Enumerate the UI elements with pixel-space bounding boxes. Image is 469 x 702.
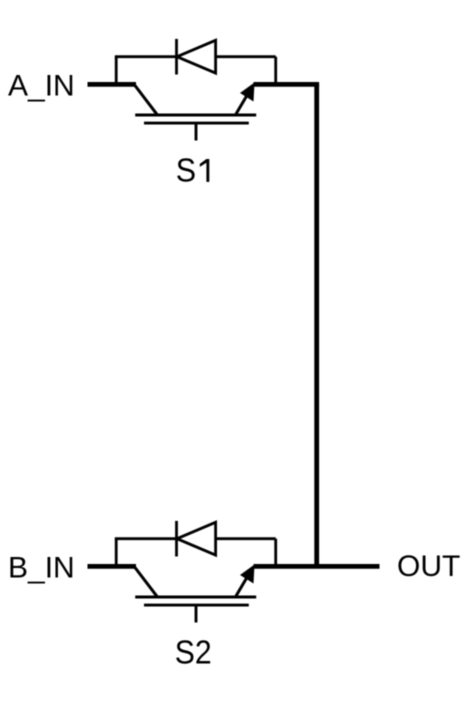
svg-text:B_IN: B_IN — [8, 551, 75, 584]
svg-text:OUT: OUT — [397, 550, 460, 583]
svg-text:S2: S2 — [175, 634, 212, 671]
svg-text:S: S — [176, 152, 196, 189]
svg-text:A_IN: A_IN — [8, 69, 75, 102]
